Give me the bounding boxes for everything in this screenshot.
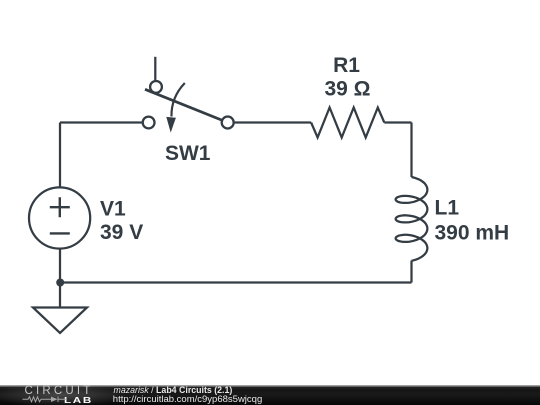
svg-text:L1: L1 xyxy=(435,197,460,220)
wire top-left horizontal (node between V1 and SW1) xyxy=(60,121,142,123)
wire bottom horizontal (node between V1, ground and L1) xyxy=(60,281,412,283)
CircuitLab logo LAB wordmark xyxy=(64,396,93,405)
svg-text:R1: R1 xyxy=(333,54,360,77)
SW1 left terminal circle xyxy=(143,117,155,129)
SW1 top terminal circle xyxy=(150,81,162,93)
wire switch to resistor xyxy=(235,121,312,123)
wire right vertical lower xyxy=(410,261,412,283)
svg-text:39 V: 39 V xyxy=(100,221,143,244)
wire ground stub xyxy=(59,283,61,308)
doodle diode cathode bar xyxy=(57,397,59,402)
inductor L1 coil xyxy=(396,177,428,261)
wire left vertical lower xyxy=(59,249,61,283)
CircuitLab logo doodle (wire, resistor zigzag, diode) xyxy=(22,395,68,404)
footer url line xyxy=(113,394,262,405)
node junction dot at V1 negative / ground / bottom net xyxy=(56,279,64,287)
SW1 right terminal circle xyxy=(222,117,234,129)
wire SW1 top terminal stub xyxy=(154,57,156,81)
footer attribution bar xyxy=(0,385,540,405)
wire right vertical upper xyxy=(410,123,412,178)
wire left vertical upper xyxy=(59,123,61,188)
SW1 actuation arrow arc xyxy=(171,83,184,117)
switch SW1 xyxy=(143,57,234,133)
CircuitLab logo CIRCUIT wordmark xyxy=(25,385,94,397)
doodle wire with resistor zigzag xyxy=(23,397,67,402)
resistor R1 zigzag xyxy=(311,108,384,138)
SW1 actuation arrowhead xyxy=(166,117,176,133)
svg-text:V1: V1 xyxy=(100,198,126,221)
svg-text:SW1: SW1 xyxy=(165,142,211,165)
voltage source V1 (circle with plus and minus) xyxy=(29,187,90,248)
SW1 lever xyxy=(145,89,222,120)
wire resistor to top-right corner xyxy=(384,121,411,123)
svg-text:390 mH: 390 mH xyxy=(435,221,510,244)
footer title line xyxy=(114,385,233,395)
footer logo glow xyxy=(0,385,160,405)
svg-text:39 Ω: 39 Ω xyxy=(324,78,370,101)
doodle diode triangle xyxy=(51,397,58,402)
ground xyxy=(33,308,87,334)
